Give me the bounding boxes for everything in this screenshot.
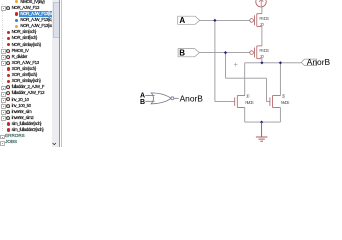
svg-text:AnorB: AnorB (180, 94, 204, 104)
svg-text:PMOS: PMOS (259, 48, 269, 53)
svg-text:PMOS: PMOS (259, 16, 269, 21)
svg-text:NMOS: NMOS (281, 100, 290, 105)
svg-text:15: 15 (282, 93, 286, 98)
svg-text:AnorB: AnorB (307, 57, 331, 67)
svg-text:B: B (179, 49, 185, 58)
svg-text:NMOS: NMOS (245, 100, 254, 105)
svg-text:20: 20 (260, 54, 264, 59)
svg-text:A: A (179, 16, 185, 25)
svg-text:B: B (140, 99, 145, 106)
svg-text:10: 10 (246, 93, 250, 98)
svg-text:20: 20 (260, 22, 264, 27)
